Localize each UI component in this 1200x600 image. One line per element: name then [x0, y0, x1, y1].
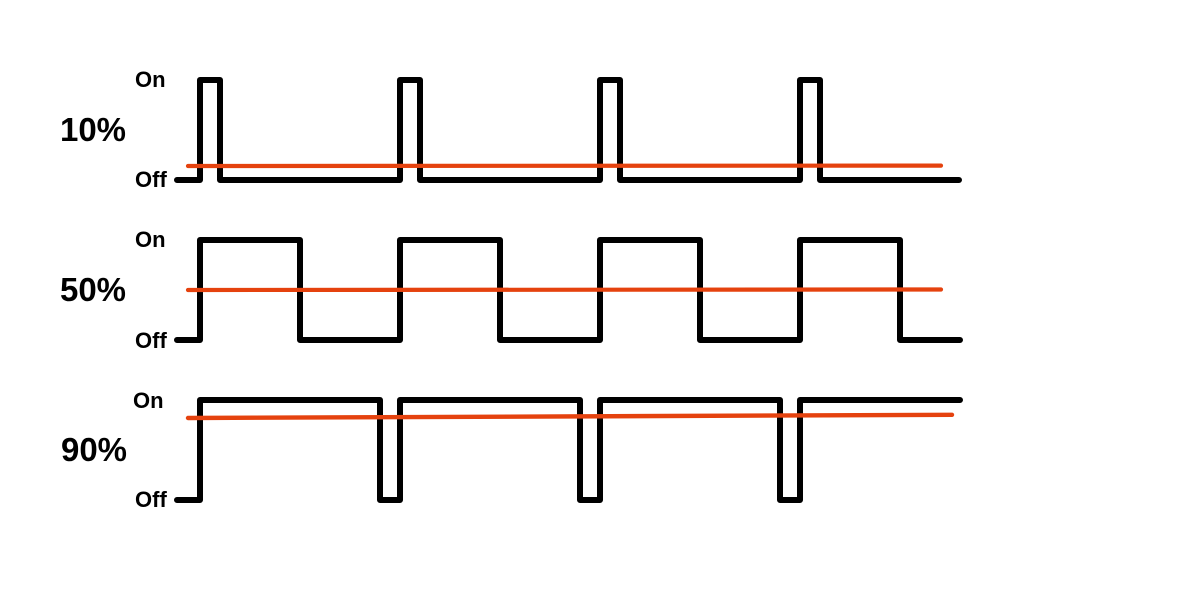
- average line (row 3): [188, 415, 952, 418]
- svg-text:10%: 10%: [60, 111, 126, 148]
- svg-text:Off: Off: [135, 167, 167, 192]
- waveform 10% duty cycle: [177, 80, 959, 180]
- svg-text:On: On: [135, 67, 166, 92]
- svg-text:Off: Off: [135, 328, 167, 353]
- svg-text:90%: 90%: [61, 431, 127, 468]
- average line (row 1): [188, 164, 941, 169]
- svg-text:On: On: [133, 388, 164, 413]
- waveform 50% duty cycle: [177, 240, 960, 340]
- svg-text:Off: Off: [135, 487, 167, 512]
- average line (row 2): [188, 287, 941, 292]
- svg-text:On: On: [135, 227, 166, 252]
- waveform 90% duty cycle: [177, 400, 960, 500]
- svg-text:50%: 50%: [60, 271, 126, 308]
